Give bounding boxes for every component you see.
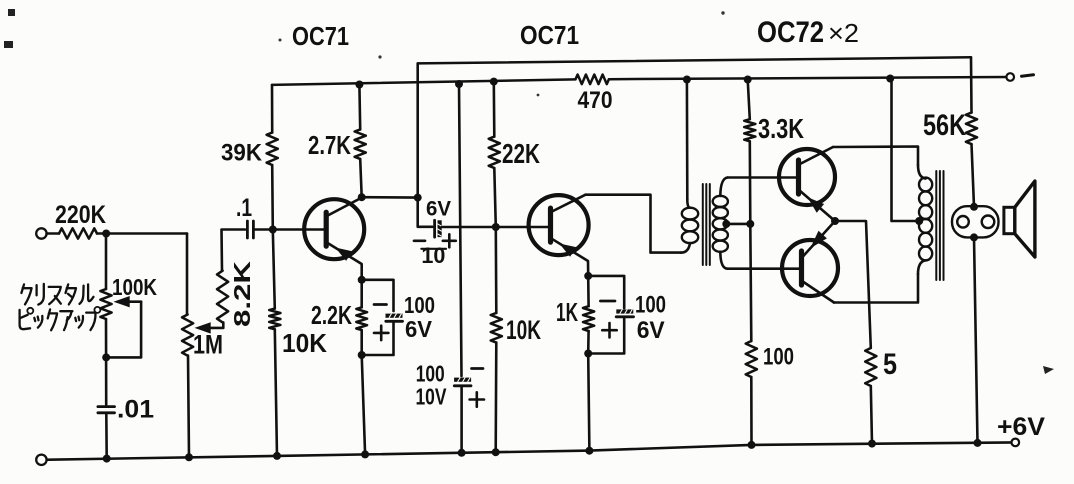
- Q3 emitter lead: [799, 190, 835, 221]
- transformer T1 secondary winding: [713, 178, 728, 269]
- resistor R3 39K: [221, 133, 278, 167]
- bottom rail junction i: [868, 440, 876, 448]
- resistor R13 5: [865, 348, 897, 386]
- transformer T2 primary winding: [918, 165, 932, 274]
- wire T1 secondary top to Q3 base: [728, 176, 799, 179]
- wire C4 to base node E: [442, 226, 551, 229]
- svg-text:×2: ×2: [828, 18, 859, 48]
- wire emitters to R13: [835, 221, 871, 348]
- svg-text:1K: 1K: [556, 297, 578, 327]
- Q2 emitter arrow: [559, 244, 576, 257]
- wire R12 to bottom rail: [750, 377, 753, 445]
- wire C6 bracket top: [588, 276, 624, 308]
- svg-text:OC72: OC72: [757, 16, 824, 49]
- transformer T1 core: [703, 184, 710, 265]
- potentiometer VR2 1M: [182, 315, 223, 360]
- potentiometer VR1 100K: [100, 274, 157, 319]
- wire VR1 wiper loop: [106, 302, 141, 358]
- wire node B to R4: [273, 230, 275, 309]
- wire R9 to bottom rail: [494, 343, 497, 453]
- wire R10 to bottom rail: [588, 354, 589, 451]
- wire R3 to node B: [271, 165, 274, 230]
- wire input to R1: [47, 232, 59, 235]
- svg-text:1M: 1M: [193, 330, 223, 360]
- node R6 bottom junction: [358, 351, 366, 359]
- bottom rail junction j: [974, 439, 982, 447]
- wire VR1 bottom to C1: [105, 319, 108, 405]
- wire R13 to bottom rail: [871, 386, 872, 444]
- transistor Q2 OC71: [529, 195, 589, 255]
- speaker voice coil winding: [952, 206, 999, 237]
- wire upper rail to R14: [970, 57, 973, 112]
- upper feedback rail: [418, 57, 971, 63]
- label OC71 stage 2: [520, 20, 579, 50]
- speaker SP1: [1004, 181, 1035, 257]
- Q2 collector lead: [551, 195, 586, 212]
- resistor R9 10K: [491, 313, 542, 345]
- bottom rail junction h: [748, 441, 756, 449]
- svg-text:22K: 22K: [502, 138, 540, 169]
- negative terminal J2: [1006, 73, 1014, 81]
- svg-text:56K: 56K: [923, 109, 966, 142]
- Q3 collector lead: [799, 147, 833, 165]
- bottom rail junction f: [492, 448, 500, 456]
- bottom rail junction e: [458, 449, 466, 457]
- resistor R8 22K: [489, 137, 540, 169]
- wiper arrow VR1: [114, 296, 142, 307]
- transformer T2 core: [936, 171, 943, 280]
- wire Q4 collector to T2: [834, 274, 918, 303]
- wire rail to R5: [358, 85, 361, 130]
- wire rail to C5: [459, 84, 462, 376]
- wire Q2 collector to T1: [586, 195, 682, 253]
- input terminal J1: [36, 228, 46, 238]
- resistor R5 2.7K: [308, 129, 366, 160]
- svg-text:100: 100: [404, 292, 435, 318]
- transistor Q1 OC71: [304, 199, 364, 259]
- node C junction: [358, 193, 366, 201]
- Q1 emitter lead: [327, 243, 362, 280]
- capacitor C6 100uF 6V: [600, 292, 666, 345]
- label crystal pickup katakana: [20, 284, 101, 330]
- resistor R14 56K: [923, 109, 977, 144]
- node voice coil bottom: [970, 233, 978, 241]
- top supply rail right of R7: [609, 77, 1007, 79]
- Q4 emitter lead: [802, 221, 835, 258]
- svg-text:6V: 6V: [426, 198, 451, 221]
- svg-text:OC71: OC71: [292, 21, 349, 51]
- capacitor C4 10uF 6V: [414, 198, 456, 269]
- resistor R2 8.2K: [217, 260, 255, 327]
- wire R1 to node A: [97, 232, 187, 235]
- transistor Q4 OC72: [782, 240, 838, 296]
- wire R6 top: [360, 280, 363, 308]
- node R8 top junction: [490, 78, 498, 86]
- resistor R12 100: [746, 341, 794, 377]
- node voice coil top: [970, 203, 978, 211]
- wire C2 to base node B: [253, 228, 326, 231]
- wire R11 to tap node: [748, 141, 751, 224]
- Q1 emitter arrow: [335, 248, 352, 261]
- wire upper rail to node D: [416, 63, 419, 197]
- capacitor C3 100uF 6V: [374, 292, 435, 342]
- resistor R10 1K: [556, 297, 594, 331]
- wire R5 to collector node C: [360, 159, 362, 197]
- svg-text:10: 10: [421, 243, 445, 268]
- wire C5 to bottom rail: [460, 386, 463, 453]
- resistor R4 10K: [269, 309, 327, 358]
- capacitor C1 .01: [98, 396, 154, 424]
- wire R10 top: [587, 276, 590, 306]
- wire C1 to ground rail: [105, 413, 108, 459]
- svg-text:100K: 100K: [112, 274, 157, 300]
- wire R2 to C2: [222, 230, 246, 271]
- Q2 emitter lead: [551, 238, 588, 276]
- node Q3 Q4 emitter junction: [831, 217, 839, 225]
- T1 secondary center tap: [722, 220, 750, 228]
- wire C3 bracket bottom: [362, 321, 394, 355]
- svg-text:OC71: OC71: [520, 20, 579, 50]
- wire R6 to bottom rail: [362, 355, 365, 454]
- node R10 bottom junction: [584, 350, 592, 358]
- bottom rail junction a: [103, 455, 111, 463]
- Q3 emitter arrow: [808, 197, 825, 212]
- node Q1 emitter junction: [358, 276, 366, 284]
- wire node A down to VR2: [186, 234, 189, 315]
- node B junction: [269, 226, 277, 234]
- transformer T1 primary winding: [681, 200, 698, 253]
- wire VR1 top: [105, 234, 108, 290]
- wire R8 to node E: [494, 168, 496, 227]
- svg-text:5: 5: [883, 348, 897, 381]
- positive terminal J4 +6V: [997, 413, 1045, 446]
- resistor R1 220K: [55, 201, 106, 239]
- bottom rail junction g: [585, 447, 593, 455]
- node C5 top junction: [455, 80, 463, 88]
- wire R4 to bottom rail: [275, 329, 277, 456]
- capacitor C5 100uF 10V: [416, 361, 485, 410]
- svg-text:6V: 6V: [637, 317, 665, 344]
- resistor R11 3.3K: [744, 113, 804, 144]
- node VR1 bottom junction: [102, 353, 110, 361]
- transistor Q3 OC72: [779, 149, 835, 205]
- minus polarity dash: [1022, 75, 1034, 76]
- node E junction: [492, 223, 500, 231]
- wire C6 bracket bottom: [588, 317, 624, 354]
- wire top rail to R3: [271, 85, 274, 133]
- wire voice coil to bottom rail: [974, 237, 978, 443]
- svg-text:100: 100: [763, 344, 794, 371]
- resistor R6 2.2K: [311, 300, 367, 330]
- svg-text:10K: 10K: [282, 328, 327, 358]
- wire C3 bracket top: [362, 280, 394, 311]
- bottom rail junction d: [361, 450, 369, 458]
- svg-text:6V: 6V: [405, 316, 433, 342]
- node A junction: [102, 230, 110, 238]
- wire R10 bottom: [587, 331, 590, 354]
- wire node D to C4: [418, 198, 433, 227]
- top supply rail left of R7: [272, 79, 576, 85]
- node T1 primary rail junction: [683, 76, 691, 84]
- wire R6 bottom: [360, 330, 363, 355]
- scan speck marks: [4, 9, 1054, 374]
- wire tap node to R12: [750, 224, 751, 341]
- bottom rail junction b: [185, 453, 193, 461]
- bottom ground rail: [41, 442, 1015, 459]
- wire Q3 collector to T2: [833, 147, 918, 166]
- svg-text:.01: .01: [117, 396, 154, 424]
- wire rail to R11: [748, 80, 750, 120]
- wire T1 secondary bottom to Q4 base: [728, 267, 802, 270]
- svg-text:100: 100: [635, 292, 666, 319]
- svg-text:+6V: +6V: [997, 413, 1045, 441]
- wire node E to R9: [494, 227, 497, 313]
- capacitor C2 .1: [236, 194, 253, 238]
- wire rail to T1 primary: [686, 80, 689, 200]
- svg-text:220K: 220K: [55, 201, 106, 229]
- svg-text:39K: 39K: [221, 140, 263, 167]
- wire node C to node D: [362, 196, 418, 199]
- wire rail to R8: [492, 82, 495, 137]
- svg-text:3.3K: 3.3K: [758, 113, 804, 144]
- ground terminal J3: [36, 455, 46, 465]
- svg-text:2.2K: 2.2K: [311, 300, 352, 330]
- wire R14 to voice coil: [972, 144, 975, 207]
- node T1 tap junction: [746, 220, 754, 228]
- svg-text:470: 470: [578, 87, 613, 114]
- Q4 emitter arrow: [810, 231, 827, 249]
- label OC71 stage 1: [292, 21, 349, 51]
- node R5 top junction: [355, 81, 363, 89]
- label OC72 x2 output pair: [757, 16, 859, 49]
- svg-text:10V: 10V: [416, 384, 447, 410]
- svg-text:8.2K: 8.2K: [229, 260, 255, 327]
- T2 primary center tap: [892, 79, 924, 226]
- bottom rail junction c: [273, 452, 281, 460]
- Q4 collector lead: [802, 281, 834, 303]
- svg-text:2.7K: 2.7K: [308, 130, 351, 160]
- wiper arrow VR2: [195, 322, 211, 333]
- node T2 tap rail junction: [886, 75, 894, 83]
- wire VR2 to bottom rail: [188, 356, 189, 458]
- svg-text:.1: .1: [236, 194, 252, 222]
- node Q2 emitter junction: [584, 272, 592, 280]
- wire VR2 wiper to R2: [208, 322, 223, 328]
- node R11 top junction: [744, 76, 752, 84]
- node D junction: [414, 194, 422, 202]
- Q1 collector lead: [327, 198, 362, 216]
- svg-text:10K: 10K: [506, 315, 541, 345]
- resistor R7 470: [576, 75, 613, 115]
